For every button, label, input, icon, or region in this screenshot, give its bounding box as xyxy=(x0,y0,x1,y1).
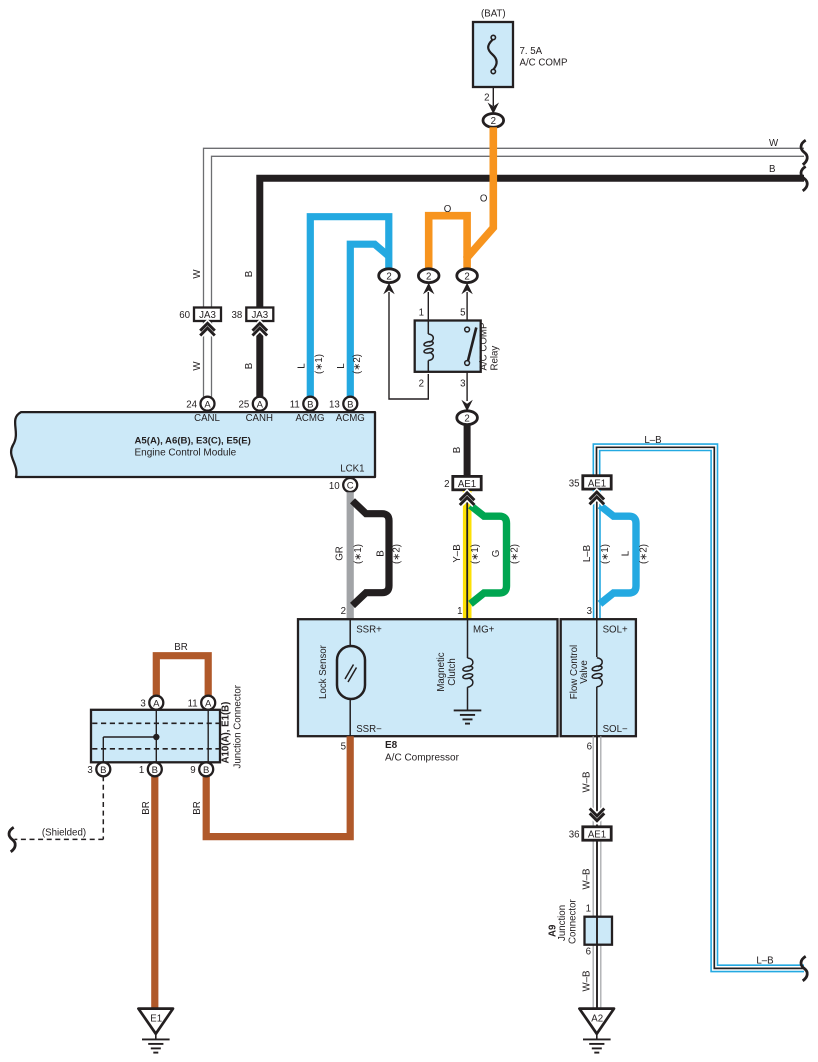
svg-text:O: O xyxy=(444,204,452,215)
svg-text:(∗2): (∗2) xyxy=(510,544,521,564)
svg-text:CANH: CANH xyxy=(246,413,273,424)
break symbol shielded xyxy=(9,827,15,852)
node connector 2 below relay xyxy=(457,411,478,425)
fuse 7.5A A/C COMP xyxy=(473,22,513,87)
wire L-B from AE1 35 up over to right edge xyxy=(597,447,805,968)
wire L (*2) from ECM pin 13 joining connector oval xyxy=(350,244,387,399)
svg-text:AE1: AE1 xyxy=(588,478,606,489)
svg-text:24: 24 xyxy=(186,400,197,411)
svg-text:A: A xyxy=(204,399,211,410)
svg-text:11: 11 xyxy=(290,400,300,411)
wire BR compressor SSR- to junction B9 xyxy=(206,736,350,836)
svg-text:ACMG: ACMG xyxy=(336,413,365,424)
wire O branch loop to second connector xyxy=(429,216,467,268)
node connector 2 below fuse xyxy=(483,114,504,128)
relay A/C COMP box xyxy=(415,321,481,372)
svg-text:Engine Control Module: Engine Control Module xyxy=(135,447,237,458)
svg-text:W–B: W–B xyxy=(582,971,593,992)
wire B vertical JA3 to ECM pin 25 xyxy=(256,321,263,399)
wire L (*1) from ECM pin 11 to connector oval xyxy=(310,217,389,399)
svg-text:B: B xyxy=(203,765,209,776)
svg-text:L: L xyxy=(297,363,308,369)
svg-text:3: 3 xyxy=(587,606,592,617)
svg-text:Connector: Connector xyxy=(568,899,579,944)
svg-text:B: B xyxy=(452,447,463,453)
junction pin 9 B xyxy=(199,762,213,776)
svg-text:AE1: AE1 xyxy=(588,829,606,840)
node connector 2 (O branch) xyxy=(418,269,439,283)
svg-text:2: 2 xyxy=(484,93,489,104)
svg-text:CANL: CANL xyxy=(194,413,220,424)
flow control valve xyxy=(596,619,598,657)
svg-text:Junction: Junction xyxy=(557,905,568,941)
wire G (*2) alternate loop xyxy=(471,506,507,604)
svg-text:W: W xyxy=(769,138,779,149)
wire W-B compressor SOL- down to ground A2 xyxy=(593,736,601,1008)
wire relay pin2 to L connector xyxy=(389,292,428,399)
junction connector JA3 (pin 60) xyxy=(194,308,221,322)
svg-text:BR: BR xyxy=(192,801,203,814)
node connector 2 (L wire) xyxy=(379,269,400,283)
wire O main from fuse connector down xyxy=(467,127,493,268)
svg-text:MG+: MG+ xyxy=(473,625,495,636)
svg-text:Lock Sensor: Lock Sensor xyxy=(318,644,329,699)
junction pin 3 B xyxy=(96,762,110,776)
svg-text:10: 10 xyxy=(329,481,340,492)
svg-text:Junction Connector: Junction Connector xyxy=(233,684,244,768)
wire W vertical JA3 to ECM pin 24 xyxy=(204,321,212,399)
wire relay pin1 to O branch connector xyxy=(427,292,429,321)
svg-text:(∗2): (∗2) xyxy=(352,354,363,374)
svg-text:LCK1: LCK1 xyxy=(340,464,364,475)
relay switch xyxy=(465,327,477,365)
svg-text:W–B: W–B xyxy=(582,869,593,890)
svg-text:3: 3 xyxy=(87,765,92,776)
node connector 2 (O main) xyxy=(457,269,478,283)
junction connector A10(A) E1(B) box xyxy=(91,710,220,763)
wire B horizontal bus to right edge xyxy=(260,178,804,307)
svg-text:9: 9 xyxy=(190,765,195,776)
svg-text:Y–B: Y–B xyxy=(452,544,463,562)
svg-text:B: B xyxy=(244,271,255,277)
svg-text:A: A xyxy=(257,399,264,410)
ground A2 xyxy=(579,1009,614,1034)
wire L (*2) alternate loop xyxy=(600,506,636,604)
svg-text:C: C xyxy=(347,481,354,492)
wire relay pin3 down to connector xyxy=(466,372,468,401)
svg-text:A5(A), A6(B), E3(C), E5(E): A5(A), A6(B), E3(C), E5(E) xyxy=(135,436,251,447)
svg-text:2: 2 xyxy=(419,379,424,390)
svg-text:(∗1): (∗1) xyxy=(470,544,481,564)
svg-text:GR: GR xyxy=(335,546,346,561)
junction pin 3 A xyxy=(149,696,163,710)
magnetic clutch xyxy=(467,619,469,658)
connector 2 AE1 xyxy=(453,476,481,489)
wire BR junction B1 to ground E1 xyxy=(151,776,158,1008)
svg-text:BR: BR xyxy=(141,801,152,814)
svg-text:W–B: W–B xyxy=(582,772,593,793)
svg-text:Magnetic: Magnetic xyxy=(436,652,447,691)
svg-text:(∗1): (∗1) xyxy=(600,544,611,564)
wire BR junction A3 loop to A11 xyxy=(156,656,208,696)
connector 35 AE1 xyxy=(583,476,611,489)
svg-text:A/C COMP: A/C COMP xyxy=(520,58,568,69)
svg-text:B: B xyxy=(769,164,775,175)
svg-text:2: 2 xyxy=(341,606,346,617)
svg-text:38: 38 xyxy=(232,310,243,321)
svg-text:W: W xyxy=(192,269,203,279)
svg-text:B: B xyxy=(376,550,387,556)
junction pin 1 B xyxy=(148,762,162,776)
svg-text:13: 13 xyxy=(329,400,340,411)
wire W horizontal bus to right edge xyxy=(204,148,805,307)
svg-text:(Shielded): (Shielded) xyxy=(42,828,86,839)
ECM pin 13 ACMG xyxy=(343,397,357,411)
svg-text:SSR−: SSR− xyxy=(356,724,382,735)
svg-text:Relay: Relay xyxy=(490,346,501,371)
svg-text:L: L xyxy=(621,550,632,556)
svg-text:1: 1 xyxy=(419,308,424,319)
svg-text:E1: E1 xyxy=(150,1014,162,1025)
svg-text:G: G xyxy=(491,550,502,558)
wire L-B (*1) AE1 to compressor SOL+ xyxy=(593,490,601,619)
svg-text:A: A xyxy=(205,698,212,709)
svg-text:B: B xyxy=(244,363,255,369)
connector 36 AE1 xyxy=(583,827,611,840)
svg-text:B: B xyxy=(307,399,313,410)
svg-text:ACMG: ACMG xyxy=(295,413,324,424)
ground inside compressor xyxy=(454,710,482,723)
svg-text:3: 3 xyxy=(140,699,145,710)
ground E1 xyxy=(138,1009,173,1034)
svg-text:(∗2): (∗2) xyxy=(639,544,650,564)
svg-text:L–B: L–B xyxy=(756,956,773,967)
ECM pin 24 CANL xyxy=(201,397,215,411)
svg-text:(BAT): (BAT) xyxy=(481,9,506,20)
svg-text:11: 11 xyxy=(188,699,198,710)
wire GR (*1) LCK1 to compressor SSR+ xyxy=(347,492,354,619)
svg-text:6: 6 xyxy=(586,947,591,958)
wire B relay connector to AE1 xyxy=(464,425,471,477)
junction connector JA3 (pin 38) xyxy=(246,308,273,322)
break symbol L-B xyxy=(801,956,807,981)
relay coil xyxy=(424,321,434,372)
junction pin 11 A xyxy=(201,696,215,710)
svg-text:B: B xyxy=(152,765,158,776)
svg-text:L–B: L–B xyxy=(582,545,593,562)
svg-text:L: L xyxy=(336,363,347,369)
wire B (*2) alternate loop xyxy=(353,501,390,606)
break symbol B bus xyxy=(801,166,807,191)
ECM Engine Control Module box xyxy=(11,412,375,477)
svg-text:35: 35 xyxy=(569,478,580,489)
lock sensor xyxy=(349,619,351,646)
svg-text:SOL−: SOL− xyxy=(603,724,628,735)
svg-text:A: A xyxy=(153,698,160,709)
svg-text:B: B xyxy=(347,399,353,410)
svg-text:2: 2 xyxy=(444,479,449,490)
A/C compressor E8 box (right section) xyxy=(561,619,636,736)
svg-text:5: 5 xyxy=(341,742,346,753)
ECM pin 11 ACMG xyxy=(303,397,317,411)
svg-text:3: 3 xyxy=(460,379,465,390)
svg-text:A10(A), E1(B): A10(A), E1(B) xyxy=(221,702,232,764)
svg-text:SSR+: SSR+ xyxy=(356,625,382,636)
svg-text:AE1: AE1 xyxy=(458,479,476,490)
svg-text:A/C Compressor: A/C Compressor xyxy=(385,753,460,764)
svg-text:1: 1 xyxy=(457,606,462,617)
svg-text:A2: A2 xyxy=(591,1014,603,1025)
wire fuse pin 2 to connector xyxy=(492,87,494,106)
svg-text:6: 6 xyxy=(587,742,592,753)
wire relay pin5 to O main connector xyxy=(466,292,468,321)
svg-text:(∗2): (∗2) xyxy=(392,544,403,564)
A/C compressor E8 box (left section) xyxy=(298,619,558,736)
svg-text:36: 36 xyxy=(569,829,580,840)
ECM pin 25 CANH xyxy=(253,397,267,411)
svg-text:E8: E8 xyxy=(385,740,398,751)
svg-text:25: 25 xyxy=(239,400,250,411)
svg-text:L–B: L–B xyxy=(644,435,661,446)
svg-text:BR: BR xyxy=(174,642,187,653)
shielded dashed line xyxy=(15,776,104,839)
wire Y-B (*1) AE1 to compressor MG+ xyxy=(463,491,472,619)
svg-text:O: O xyxy=(480,194,488,205)
svg-text:1: 1 xyxy=(139,765,144,776)
svg-text:1: 1 xyxy=(586,904,591,915)
svg-text:SOL+: SOL+ xyxy=(603,625,628,636)
svg-text:B: B xyxy=(100,765,106,776)
svg-text:7. 5A: 7. 5A xyxy=(520,46,543,57)
svg-text:(∗1): (∗1) xyxy=(353,544,364,564)
svg-text:Valve: Valve xyxy=(579,660,590,684)
svg-text:A/C COMP: A/C COMP xyxy=(479,323,490,371)
svg-text:60: 60 xyxy=(179,310,190,321)
svg-text:5: 5 xyxy=(460,308,465,319)
svg-text:Clutch: Clutch xyxy=(447,658,458,685)
svg-text:(∗1): (∗1) xyxy=(314,354,325,374)
break symbol W bus xyxy=(801,140,807,165)
svg-text:W: W xyxy=(192,361,203,371)
